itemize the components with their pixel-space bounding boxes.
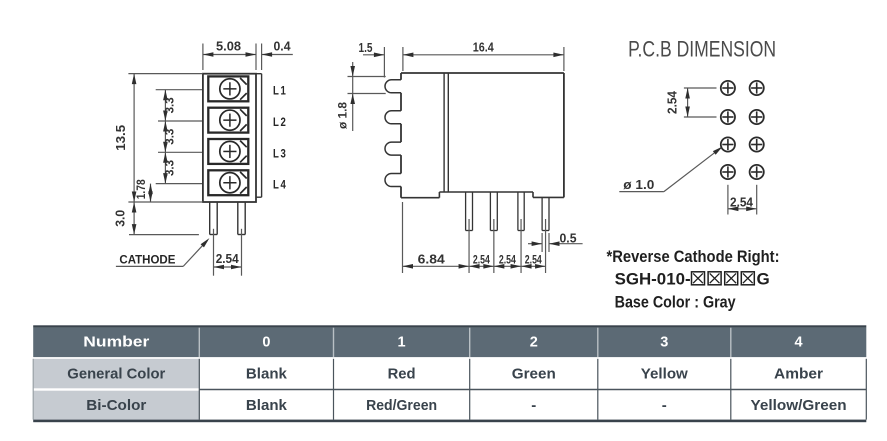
table header separators [199, 328, 731, 358]
side view pin 4 [542, 197, 549, 230]
svg-text:1.78: 1.78 [136, 179, 148, 200]
svg-text:Amber: Amber [774, 365, 823, 382]
PCB hole row1 col2 [750, 81, 764, 95]
table bottom border [33, 420, 866, 423]
dim 13.5 (body height) [113, 74, 203, 202]
table data cell borders [33, 359, 866, 420]
front view body [203, 74, 256, 202]
PCB hole row3 col1 [721, 137, 735, 151]
svg-text:2.54: 2.54 [473, 254, 490, 266]
svg-text:SGH-010-: SGH-010- [615, 270, 691, 289]
svg-text:3.0: 3.0 [113, 210, 128, 227]
PCB hole row4 col2 [750, 165, 764, 179]
svg-text:Bi-Color: Bi-Color [86, 397, 146, 414]
led center tick lines [156, 90, 202, 184]
svg-text:L3: L3 [273, 148, 288, 160]
svg-text:3.3: 3.3 [163, 97, 177, 113]
svg-text:16.4: 16.4 [473, 40, 495, 55]
side view body outline [401, 73, 564, 198]
side view LED lens bump 1 [385, 80, 401, 93]
LED cell L1 [208, 76, 248, 101]
svg-text:3.3: 3.3 [163, 160, 177, 176]
svg-text:1.5: 1.5 [359, 40, 373, 55]
dim 2.54 (front pin spacing) [214, 229, 242, 276]
note: part number SGH-010 [615, 270, 770, 289]
svg-text:ø 1.0: ø 1.0 [623, 177, 654, 192]
dim 0.5 (pin width) [528, 231, 583, 252]
svg-text:1: 1 [398, 335, 406, 351]
side view pin 2 [490, 192, 497, 231]
svg-text:2.54: 2.54 [730, 194, 754, 209]
side view pin 3 [518, 192, 524, 231]
svg-text:0: 0 [262, 335, 270, 351]
PCB dim 2.54 vertical [665, 88, 717, 117]
table row label General Color background [33, 359, 199, 389]
svg-text:3: 3 [660, 335, 668, 351]
side view LED lens bump 3 [385, 142, 401, 155]
dim 3.3 pitch chain [163, 90, 177, 184]
table header row background [33, 328, 866, 358]
side view pin 1 [466, 192, 473, 231]
front pin (right) [238, 202, 245, 235]
PCB hole row3 col2 [750, 137, 764, 151]
LED cell L4 [208, 170, 248, 195]
dim 0.4 (strip width) [262, 39, 293, 71]
svg-text:*Reverse Cathode Right:: *Reverse Cathode Right: [607, 247, 780, 266]
side view LED lens bump 4 [385, 174, 401, 187]
PCB hole row2 col1 [721, 110, 735, 124]
svg-text:Base Color : Gray: Base Color : Gray [615, 293, 736, 312]
dim dia 1.8 (lens) [336, 62, 386, 131]
front cathode pin (left) [210, 202, 218, 235]
svg-text:Green: Green [512, 365, 556, 382]
svg-text:2.54: 2.54 [525, 254, 542, 266]
svg-text:2: 2 [530, 335, 538, 351]
svg-text:Number: Number [83, 335, 149, 351]
svg-text:Yellow: Yellow [641, 365, 688, 382]
PCB dia 1.0 leader [619, 147, 722, 193]
dim 3.0 (pin length front) [113, 202, 199, 235]
svg-text:ø 1.8: ø 1.8 [336, 102, 350, 129]
svg-text:2.54: 2.54 [499, 254, 516, 266]
PCB hole row4 col1 [721, 165, 735, 179]
svg-text:G: G [757, 270, 770, 289]
svg-text:6.84: 6.84 [418, 251, 446, 266]
LED cell L3 [208, 139, 248, 164]
svg-text:5.08: 5.08 [216, 39, 241, 54]
svg-text:-: - [662, 397, 667, 414]
svg-text:3.3: 3.3 [163, 128, 177, 144]
dim 6.84 and pin pitch chain [403, 202, 546, 273]
svg-text:0.5: 0.5 [560, 231, 577, 246]
svg-text:Blank: Blank [246, 365, 288, 382]
svg-text:2.54: 2.54 [216, 251, 240, 266]
svg-text:L4: L4 [273, 180, 288, 192]
CATHODE label and leader [116, 238, 209, 266]
svg-text:13.5: 13.5 [113, 125, 128, 151]
svg-text:L2: L2 [273, 117, 288, 129]
svg-text:Blank: Blank [246, 397, 288, 414]
PCB hole row1 col1 [721, 81, 735, 95]
svg-text:0.4: 0.4 [274, 39, 292, 54]
svg-text:2.54: 2.54 [665, 90, 680, 114]
front view right side strip [256, 74, 262, 198]
side view LED lens bump 2 [385, 111, 401, 124]
svg-text:P.C.B DIMENSION: P.C.B DIMENSION [628, 37, 776, 62]
dim 16.4 (body width side) [403, 40, 564, 72]
PCB hole row2 col2 [750, 110, 764, 124]
svg-text:CATHODE: CATHODE [119, 254, 175, 266]
table row label Bi-Color background [33, 391, 199, 420]
svg-text:L1: L1 [273, 86, 288, 98]
svg-text:4: 4 [795, 335, 803, 351]
svg-text:Red/Green: Red/Green [366, 397, 437, 414]
dim 1.5 (lens protrusion) [359, 40, 385, 78]
svg-text:Yellow/Green: Yellow/Green [751, 397, 847, 414]
table top border [33, 325, 866, 327]
dim 5.08 (front width) [203, 39, 256, 71]
dim 1.78 [136, 179, 153, 202]
LED cell L2 [208, 108, 248, 133]
svg-text:Red: Red [388, 365, 416, 382]
svg-text:General Color: General Color [67, 365, 165, 382]
svg-text:-: - [531, 397, 536, 414]
PCB dim 2.54 horizontal [728, 185, 757, 215]
side view inner panel line [444, 73, 448, 192]
